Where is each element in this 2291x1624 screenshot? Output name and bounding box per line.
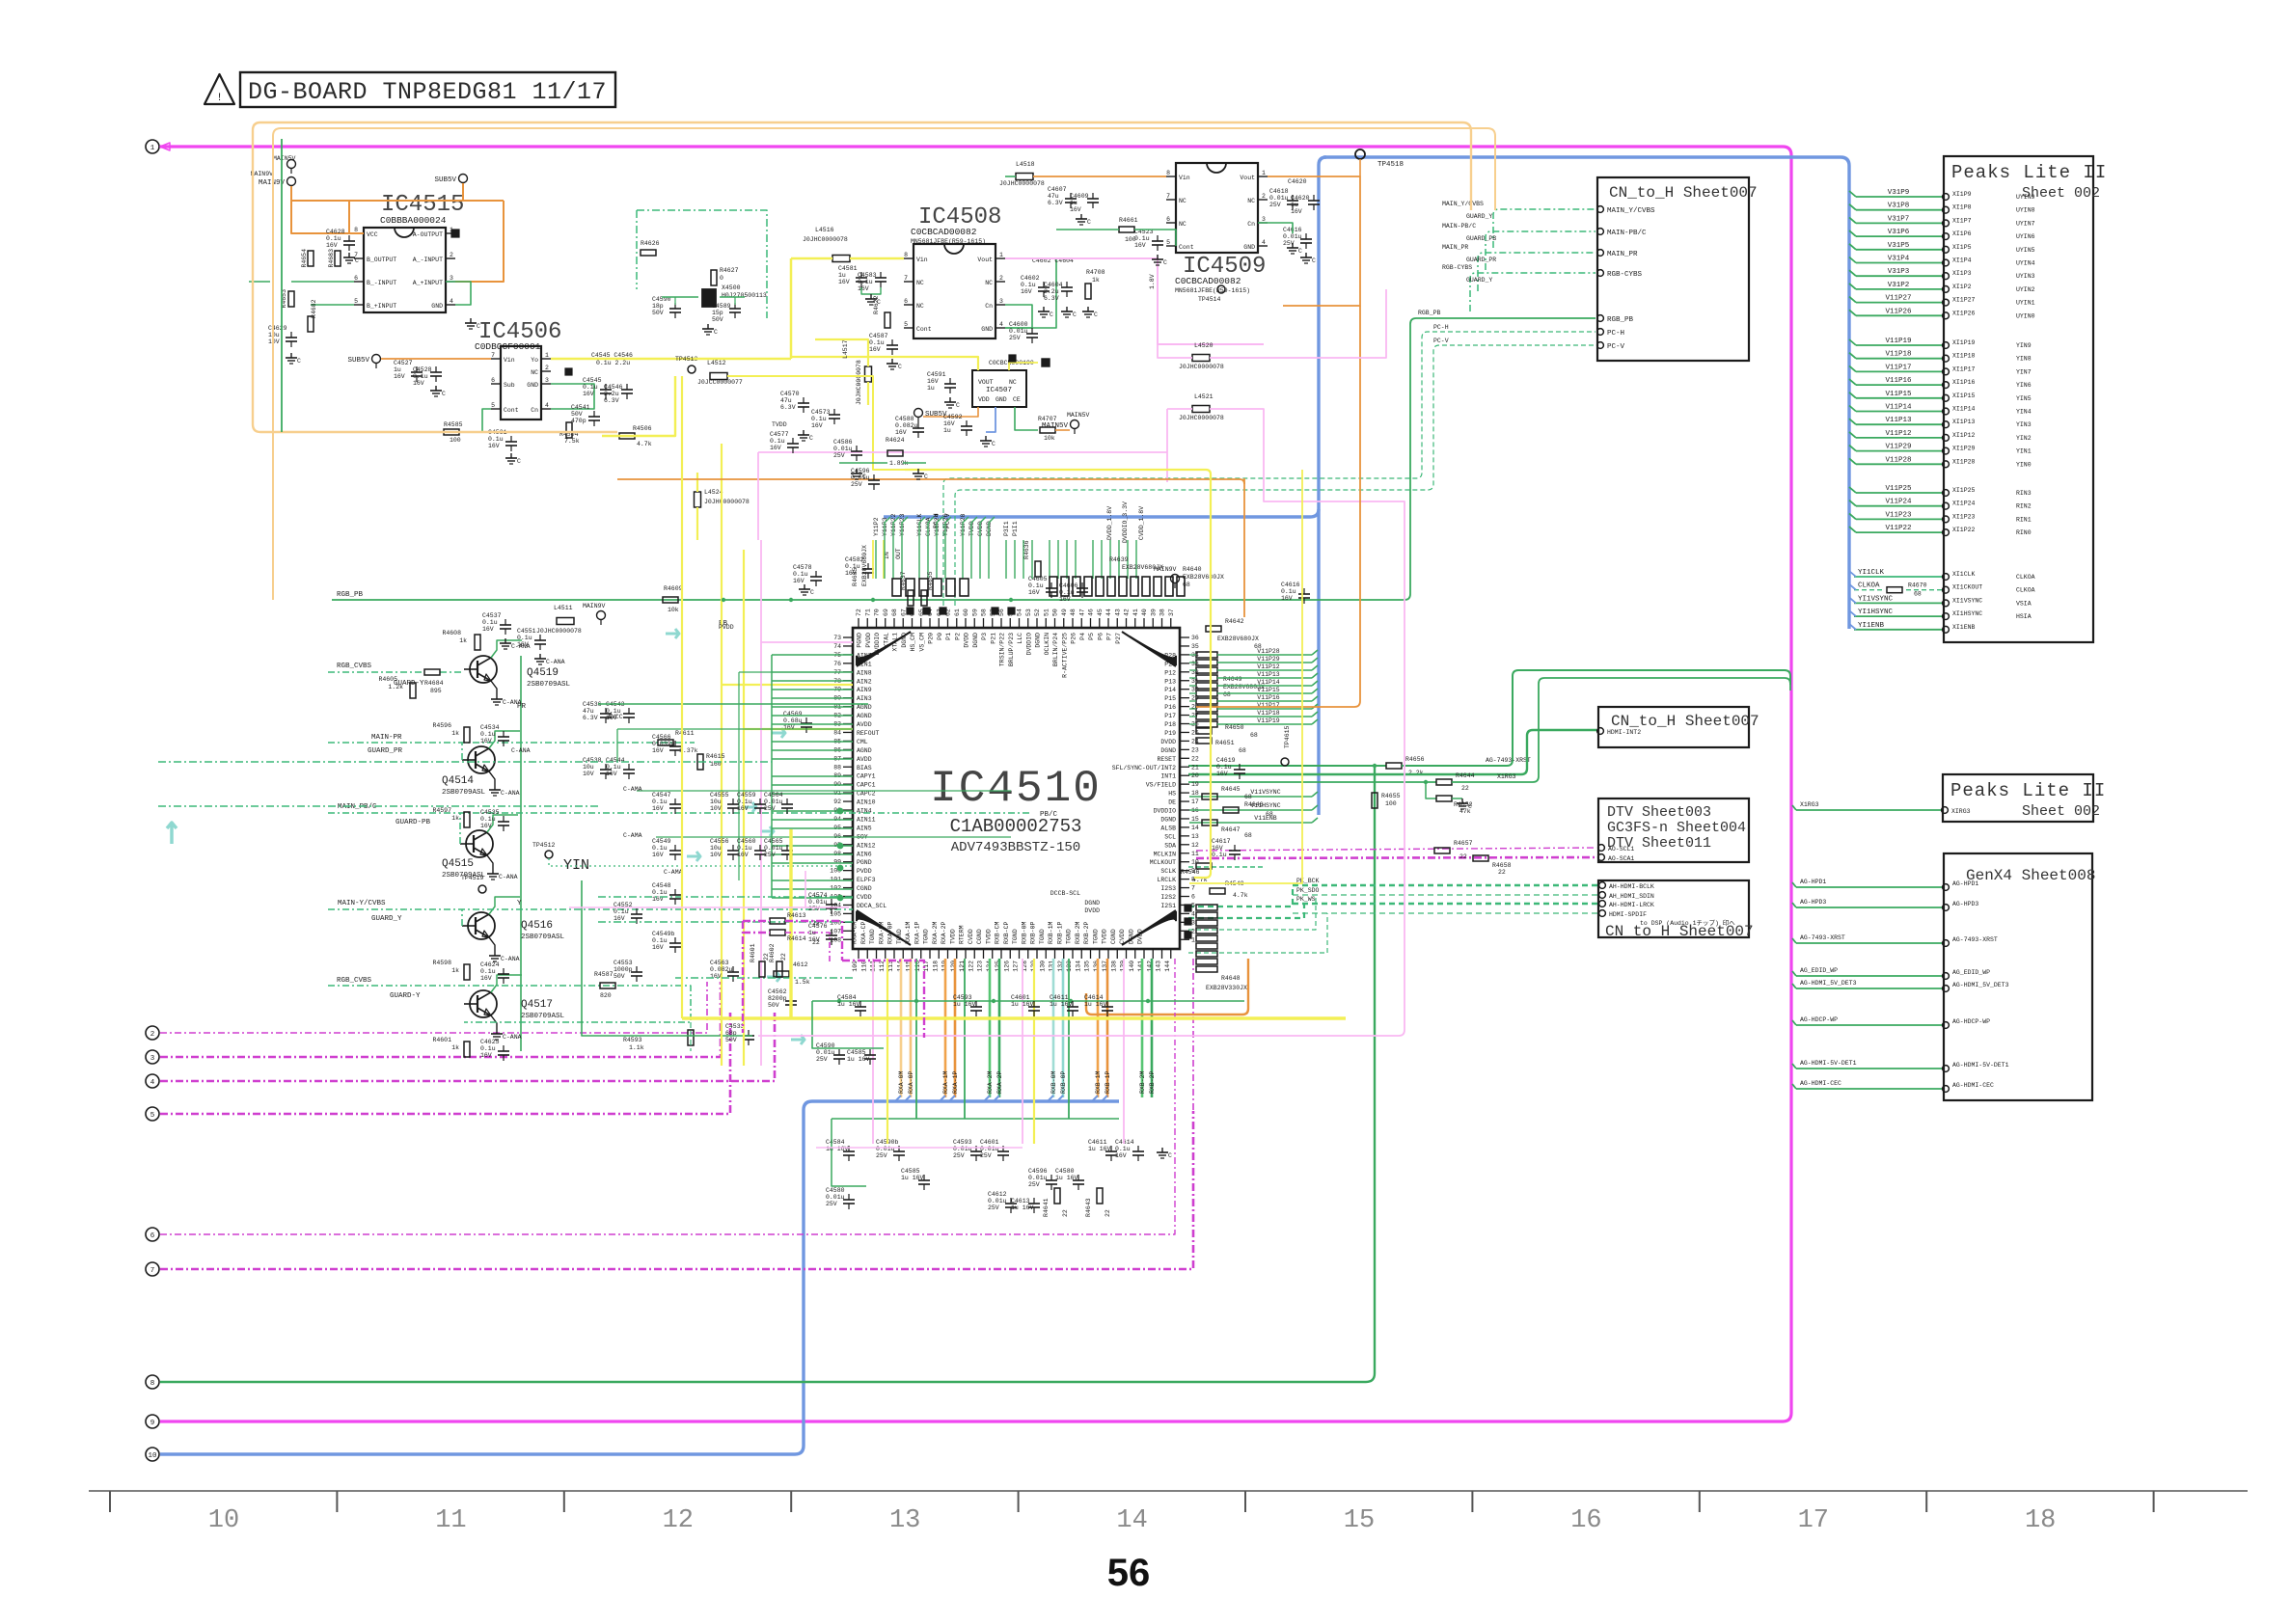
wire yellow vertical x820 [789,829,792,1018]
svg-text:C4548: C4548 [652,882,671,889]
wire yellow DVDDIO [1189,470,1302,883]
svg-text:C4545: C4545 [583,377,602,384]
svg-text:UYIN1: UYIN1 [2016,300,2035,307]
capacitor C4535 [498,821,509,823]
svg-text:15: 15 [1191,816,1199,823]
pin XI1P14 [1856,411,1942,413]
svg-text:V11P28: V11P28 [1257,648,1280,655]
svg-text:PC-H: PC-H [1433,324,1449,331]
pin XI1P17 [1856,370,1942,372]
svg-text:C4564: C4564 [764,792,783,798]
svg-text:MAIN5V: MAIN5V [273,155,296,162]
svg-text:6: 6 [491,377,495,384]
svg-text:50: 50 [1052,609,1059,616]
junction TP4615 [1281,758,1289,766]
capacitor C4624 [498,973,509,975]
svg-text:XI1P22: XI1P22 [1952,527,1976,533]
black pad NC4506 [565,368,572,375]
svg-text:UYIN7: UYIN7 [2016,220,2035,227]
capacitor C4544 [623,769,635,771]
svg-text:P2: P2 [954,633,961,640]
pin AO-SCA1 [1598,854,1605,861]
svg-text:15: 15 [1344,1506,1375,1535]
svg-text:0.01u: 0.01u [833,446,853,452]
pin 5 Cont [1166,245,1176,247]
svg-text:NC: NC [1179,198,1186,204]
svg-text:C-ANA: C-ANA [499,874,518,880]
power SUB5V IC4507 [914,409,923,418]
svg-text:AG-HPD3: AG-HPD3 [1952,901,1978,907]
svg-text:0.082u: 0.082u [895,422,918,429]
warning triangle [205,74,234,104]
capacitor C4563 [727,971,739,973]
svg-text:XI1P25: XI1P25 [1952,487,1976,494]
wire RXA-1M [944,959,947,1097]
pin 2 NC [541,370,551,372]
svg-text:GND: GND [1243,244,1255,251]
svg-text:AIN12: AIN12 [857,842,876,849]
svg-text:PGND: PGND [857,859,872,866]
ground cluster [856,469,858,474]
svg-text:C4619: C4619 [1216,757,1236,764]
resistor R4636 [1035,561,1041,577]
wire orange IC4515 supply [291,186,364,233]
svg-text:16V: 16V [1212,845,1223,852]
capacitor C4523 [1152,240,1163,242]
pin PC-H [1597,329,1604,336]
svg-text:P19: P19 [1164,730,1176,737]
svg-text:C4545 C4546: C4545 C4546 [591,352,633,359]
svg-text:C4580: C4580 [826,1187,845,1194]
wire RGB_CVB green base [690,1022,692,1051]
svg-text:P6: P6 [1097,633,1104,640]
svg-text:ALSB: ALSB [1160,825,1176,831]
svg-text:RXB-CM: RXB-CM [995,921,1001,944]
svg-text:CML: CML [857,739,868,745]
svg-text:Vout: Vout [1240,175,1255,181]
power MAIN9V mid [597,611,606,620]
svg-text:J0JHC0000078: J0JHC0000078 [856,360,862,405]
wire AH_HDMI_SDIN [1293,894,1597,896]
regulator IC4509 [1176,163,1258,253]
capacitor C4566 [669,745,681,747]
svg-text:0.01u: 0.01u [816,1049,835,1056]
svg-text:V31P2: V31P2 [1888,282,1910,289]
svg-text:C4533: C4533 [725,1023,745,1030]
svg-text:R4614: R4614 [787,935,806,942]
capacitor C4591 [944,383,956,385]
svg-text:C4614: C4614 [1084,994,1104,1001]
svg-text:R4587: R4587 [594,971,614,978]
svg-text:SUB5V: SUB5V [347,357,369,365]
ground emitter [489,937,495,951]
svg-text:C4569: C4569 [783,711,803,717]
wire RXA-2M [989,959,992,1097]
wire green CE main5v [1015,407,1038,430]
wire dashed guard into IC [158,761,772,763]
coil L4524 [695,492,701,507]
svg-text:25V: 25V [764,805,776,812]
svg-text:68: 68 [1183,582,1190,588]
svg-text:14: 14 [1191,825,1199,831]
resistor R4654 [308,251,314,266]
svg-text:0.1u: 0.1u [1021,282,1036,288]
svg-text:MAIN5V: MAIN5V [1067,412,1090,419]
wire dashed RGB_CVBS GUARD-Y [328,671,424,673]
wire MAIN_PR dashed guard [1478,253,1596,291]
svg-text:10: 10 [148,1452,157,1460]
svg-text:BRLUP/P23: BRLUP/P23 [1008,633,1015,666]
svg-text:19: 19 [1191,781,1199,788]
svg-text:C1AB00002753: C1AB00002753 [950,816,1082,837]
svg-text:C4584: C4584 [826,1139,845,1146]
svg-text:XI1P4: XI1P4 [1952,257,1972,264]
capacitor C4585b [864,1054,876,1056]
svg-text:68: 68 [1244,832,1252,839]
black pads I2S [1185,905,1191,911]
svg-text:RXB-1M: RXB-1M [1048,921,1054,944]
pin AH-HDMI-BCLK [1599,882,1606,889]
svg-text:1u: 1u [1291,202,1298,208]
svg-text:16V: 16V [326,242,338,249]
svg-text:9: 9 [150,1420,155,1427]
svg-text:139: 139 [1120,961,1127,972]
svg-text:VCC: VCC [367,231,378,238]
svg-text:C4574: C4574 [808,892,828,899]
svg-text:47u: 47u [1048,193,1059,200]
svg-text:C4591: C4591 [927,371,946,378]
pin XI1P23 [1856,518,1942,520]
svg-text:R4637: R4637 [900,571,907,590]
wire green Cn right [1258,223,1293,233]
svg-text:MAIN_PR: MAIN_PR [1607,251,1638,258]
svg-text:1k: 1k [451,815,459,822]
svg-text:GenX4 Sheet008: GenX4 Sheet008 [1966,867,2095,884]
svg-text:16V: 16V [943,420,955,427]
pin 6 Sub [491,383,501,385]
svg-text:TGND: TGND [1092,929,1099,944]
wire orange Vout TP4518 [1268,176,1360,306]
svg-text:44: 44 [1105,609,1112,616]
svg-text:V11P23: V11P23 [1885,511,1912,519]
svg-text:C4604: C4604 [1044,282,1063,288]
svg-text:7: 7 [1191,885,1195,892]
svg-text:R4650: R4650 [1225,724,1244,731]
svg-text:0.1u: 0.1u [737,798,752,805]
svg-text:VS/FIELD: VS/FIELD [1146,782,1176,789]
svg-text:RGB_PB: RGB_PB [337,591,364,599]
capacitor C4564 [781,803,793,805]
pin 5 B_+INPUT [354,304,364,306]
svg-text:HDMI-INT2: HDMI-INT2 [1607,729,1641,736]
svg-text:R4615: R4615 [706,753,725,760]
svg-text:RESET: RESET [1157,756,1176,763]
svg-text:YIN5: YIN5 [2016,395,2032,402]
node 4 [146,1074,159,1088]
svg-text:0.1u: 0.1u [811,416,827,422]
svg-text:CGND: CGND [857,885,872,892]
coil L4518 [1016,174,1033,180]
svg-text:Y11P2: Y11P2 [873,517,880,536]
svg-text:EXB28V680JX: EXB28V680JX [861,545,868,586]
svg-text:VSIA: VSIA [2016,600,2032,607]
wire RESET / AG_7493_XRST [1188,765,1386,767]
svg-text:R4611: R4611 [675,730,695,737]
svg-text:MN5681JFBE(R59-1615): MN5681JFBE(R59-1615) [1175,287,1250,294]
capacitor C4580 [1073,1179,1084,1181]
capacitor C4596 [1046,1179,1057,1181]
svg-text:16V: 16V [652,944,664,951]
flow arrow [687,852,700,861]
wire PC-V [955,345,1596,606]
pin AG-HDCP-WP [1796,1024,1942,1026]
wire orange right vertical [1243,478,1245,617]
svg-text:0.01u: 0.01u [764,798,783,805]
wire HDMI-SPDIF [1293,912,1597,914]
wire pink L4520 [1158,344,1192,358]
capacitor C4619 [1234,769,1245,771]
wire peach border top [260,122,1471,210]
ground IC4515 [470,318,472,323]
svg-text:RXB-1M: RXB-1M [1095,1070,1102,1094]
flow arrow [772,728,785,738]
svg-text:36: 36 [1191,635,1199,641]
capacitor C4570 [798,402,809,404]
wire dashed node5 [160,1013,730,1114]
resistor R4650 R4651 [1196,728,1212,734]
node 7 [146,1262,159,1276]
svg-text:123: 123 [977,961,984,972]
pin 6 B_-INPUT [354,281,364,283]
svg-text:2: 2 [450,252,453,258]
svg-text:P13: P13 [1164,678,1176,685]
svg-text:LRCLK: LRCLK [1157,877,1176,883]
svg-text:C4541: C4541 [571,404,590,411]
wire dashed guard y930 [598,896,853,898]
svg-text:C4580: C4580 [1055,1168,1075,1175]
svg-text:DVDD: DVDD [964,633,970,648]
pin AG-HPD3 [1796,907,1942,908]
power MAINQV [1171,575,1180,583]
svg-text:2: 2 [545,365,549,371]
capacitor C4552 [631,913,642,915]
svg-text:AO-SCA1: AO-SCA1 [1608,855,1634,862]
svg-text:RGB-CYBS: RGB-CYBS [1442,264,1472,271]
svg-text:DVDDIO_3.3V: DVDDIO_3.3V [1122,501,1129,543]
svg-text:C4584: C4584 [837,994,857,1001]
svg-text:XI1P27: XI1P27 [1952,297,1976,304]
svg-text:C4577: C4577 [770,431,789,438]
svg-text:CLKOA: CLKOA [2016,574,2035,581]
svg-text:AG-HDMI_5V_DET3: AG-HDMI_5V_DET3 [1952,982,2009,988]
svg-text:25: 25 [1191,729,1199,736]
pin 5 Cont [904,327,914,329]
svg-text:C4546: C4546 [604,384,623,391]
svg-text:1u 16V: 1u 16V [1011,1001,1034,1008]
svg-text:Cont: Cont [916,326,932,333]
svg-text:MN5681JFBE(R59-1615): MN5681JFBE(R59-1615) [911,238,986,245]
wire green cont [1056,229,1119,230]
svg-text:R4624: R4624 [886,437,905,444]
svg-text:HS_CM: HS_CM [910,633,916,652]
CN_to_H Sheet007 box (top, video) [1597,177,1749,361]
svg-text:CN_to_H Sheet007: CN_to_H Sheet007 [1605,923,1754,940]
capacitor C4601 [997,1150,1009,1152]
svg-text:6.3V: 6.3V [780,404,796,411]
resistor R4657 [1434,848,1450,853]
pin 5 Cont [491,408,501,410]
svg-text:C4588: C4588 [895,416,914,422]
svg-text:0.01u: 0.01u [876,1146,895,1152]
svg-text:C4528: C4528 [413,366,432,373]
green interconnect cluster [598,703,868,705]
wire pink horizontal y469 [758,451,1167,453]
svg-text:YI1VSYNC: YI1VSYNC [1858,595,1894,603]
svg-text:22: 22 [1062,1209,1069,1217]
svg-text:H0J270500113: H0J270500113 [722,292,767,299]
svg-text:16V: 16V [413,380,424,387]
svg-text:XI1P13: XI1P13 [1952,419,1976,425]
svg-text:V11P26: V11P26 [1885,308,1912,315]
svg-text:1: 1 [1262,170,1266,176]
svg-text:0.1u: 0.1u [1028,582,1044,589]
wire green vertical bundle left [771,655,773,898]
svg-text:1u 16V: 1u 16V [1088,1146,1111,1152]
svg-text:RXA-2P: RXA-2P [996,1070,1003,1094]
svg-text:59: 59 [971,609,978,616]
svg-text:GND: GND [981,326,993,333]
svg-text:MAIN_Y/CVBS: MAIN_Y/CVBS [1442,201,1484,207]
svg-text:R4601: R4601 [750,943,756,962]
wire yellow Yo out [551,358,695,360]
svg-text:DGND: DGND [1160,816,1176,823]
dashed guard box crystal [637,210,767,318]
svg-text:TVDD: TVDD [949,929,956,944]
svg-text:4: 4 [1262,239,1266,246]
svg-text:AGND: AGND [857,704,872,711]
svg-text:0.1u: 0.1u [1115,1146,1131,1152]
IC4510 corner fan lines [857,632,911,666]
svg-text:P7: P7 [1106,633,1113,640]
svg-text:C4590: C4590 [816,1042,835,1049]
svg-text:REFOUT: REFOUT [857,730,880,737]
wire RXA-2P [998,959,1001,1097]
capacitor C4609 [1087,198,1099,200]
resistor R4546 [1196,863,1212,869]
svg-text:RGB_PB: RGB_PB [1418,310,1441,316]
svg-text:NC: NC [1009,379,1017,386]
svg-text:92: 92 [833,798,841,805]
resistor R4611 [658,740,673,745]
resistor R4652 [1424,780,1428,784]
svg-text:TRSIN/P22: TRSIN/P22 [999,633,1006,666]
svg-text:56: 56 [998,609,1005,616]
svg-text:8: 8 [1166,170,1170,176]
svg-text:C-ANA: C-ANA [511,747,531,754]
svg-text:XI1P28: XI1P28 [1952,458,1976,465]
svg-text:16V: 16V [895,429,907,436]
wire yellow long right [905,470,1211,873]
svg-text:C: C [297,358,301,365]
svg-text:DG-BOARD TNP8EDG81 11/17: DG-BOARD TNP8EDG81 11/17 [248,78,607,106]
wire green left pins bundle [772,654,853,656]
resistor R4504 [566,422,572,438]
svg-text:P21: P21 [990,633,996,644]
wire SCLK dashed [1188,885,1293,907]
svg-text:C: C [1087,219,1091,226]
regulator IC4506 [501,346,541,420]
svg-text:AG-HDCP-WP: AG-HDCP-WP [1800,1016,1838,1023]
svg-text:144: 144 [1164,961,1171,972]
svg-text:R4642: R4642 [1225,618,1244,625]
svg-text:V11P12: V11P12 [1885,430,1911,438]
svg-text:TGND: TGND [923,929,930,944]
svg-text:C4609: C4609 [1070,193,1089,200]
capacitor C4596b [868,479,880,481]
svg-text:C4527: C4527 [394,360,413,366]
svg-text:16V: 16V [480,975,492,982]
svg-text:50V: 50V [725,1037,737,1043]
pin 2 NC [995,281,1005,283]
capacitor C4612 C4613 [1005,1203,1017,1204]
svg-text:53: 53 [1025,609,1032,616]
svg-text:AIN9: AIN9 [857,687,872,693]
svg-text:C4576: C4576 [808,923,828,930]
svg-text:R4609: R4609 [664,585,683,592]
wire blue node10 loop [160,1101,1119,1454]
svg-text:C4563: C4563 [710,960,729,966]
svg-text:C: C [924,474,928,480]
svg-text:22: 22 [1498,869,1506,876]
ground c-ana pair [505,638,506,643]
ground C4581 [861,287,881,294]
resistor R4655 [1372,793,1377,808]
svg-text:C: C [442,391,446,397]
svg-text:SUB5V: SUB5V [434,176,456,184]
svg-text:XI1P7: XI1P7 [1952,217,1972,224]
svg-text:YIN7: YIN7 [2016,368,2032,375]
svg-text:C4555: C4555 [710,792,729,798]
svg-text:VOUT: VOUT [978,379,994,386]
svg-text:RIN3: RIN3 [2016,490,2032,497]
resistor array R4649 vertical [1196,652,1217,658]
svg-text:C4611: C4611 [1050,994,1069,1001]
resistor array R4648 [1196,905,1217,910]
svg-text:YIN8: YIN8 [2016,356,2032,363]
svg-text:16V: 16V [808,936,820,943]
svg-text:RXB-2P: RXB-2P [1083,921,1090,944]
svg-text:Q4519: Q4519 [527,667,559,679]
coil L4520 [1192,355,1210,362]
svg-text:PVDD: PVDD [719,624,734,631]
svg-text:R-ACTIVE/P25: R-ACTIVE/P25 [1061,633,1068,678]
svg-text:SCLK: SCLK [1160,868,1176,875]
svg-text:Vin: Vin [504,357,515,364]
svg-text:16V: 16V [838,279,850,285]
resistor R4641 R4643 [1054,1188,1060,1204]
svg-text:0.1u: 0.1u [488,436,504,443]
svg-text:X1RG3: X1RG3 [1497,773,1516,780]
svg-text:P20: P20 [928,633,935,644]
svg-text:CGND: CGND [1110,929,1117,944]
capacitor C4578 [810,576,822,578]
svg-text:17: 17 [1798,1506,1829,1535]
wire RXA-1P [954,959,957,1097]
svg-text:A_-INPUT: A_-INPUT [413,257,443,263]
capacitor C4590b [833,1054,845,1056]
wire INT1 / X1RG3 [1188,781,1436,783]
wire green cont [282,409,491,432]
